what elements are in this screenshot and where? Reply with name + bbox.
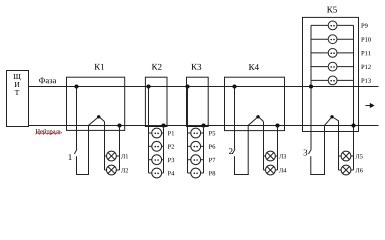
relay box К5 bbox=[303, 17, 359, 131]
distribution panel ЩИТ bbox=[7, 71, 29, 127]
socket Р8 bbox=[188, 172, 191, 174]
wire: bottom run of К1 cell bbox=[76, 174, 89, 176]
node: neutral tap of К5 bbox=[351, 123, 355, 127]
socket Р7 bbox=[188, 159, 191, 161]
contact blade of К4 bbox=[248, 117, 258, 126]
lamp Л2 bbox=[105, 169, 107, 171]
label Р12 bbox=[361, 65, 364, 69]
wire: switch 2 lower drop bbox=[234, 156, 236, 175]
relay box К1 bbox=[67, 77, 125, 130]
node: neutral tap of К1 bbox=[117, 123, 121, 127]
label Нейтраль bbox=[35, 129, 39, 133]
wire: socket right rail of К2 bbox=[163, 126, 165, 174]
wire: socket left rail of К2 bbox=[148, 87, 150, 174]
socket Р11 bbox=[311, 52, 328, 54]
label Р5 bbox=[209, 131, 212, 135]
label Л1 bbox=[121, 154, 125, 158]
label Р2 bbox=[168, 144, 171, 148]
lamp Л3 bbox=[264, 155, 266, 157]
wire: lamp left rail of К5 cell bbox=[338, 120, 340, 170]
lamp Л5 bbox=[339, 155, 342, 157]
socket Р10 bbox=[311, 38, 328, 40]
node: phase tap of К5 bbox=[309, 84, 313, 88]
wire: lamp left rail of К1 cell bbox=[104, 122, 106, 170]
wire: return riser of К1 cell bbox=[88, 126, 90, 175]
label К1 bbox=[95, 64, 101, 70]
relay box К4 bbox=[225, 77, 285, 130]
label Л2 bbox=[121, 168, 125, 172]
node: neutral tap of К2 bbox=[161, 123, 165, 127]
socket Р3 bbox=[149, 159, 152, 161]
node: neutral tap of К3 bbox=[201, 123, 205, 127]
arrow: feed continues to the right bbox=[366, 105, 371, 107]
lamp Л1 bbox=[105, 155, 107, 157]
label Р1 bbox=[168, 131, 171, 135]
socket Р9 bbox=[311, 24, 328, 26]
label Р4 bbox=[168, 171, 171, 175]
socket Р2 bbox=[149, 145, 152, 147]
wire: lamp right rail of К1 cell bbox=[119, 126, 121, 171]
wire: bottom run of К4 cell bbox=[234, 174, 249, 176]
wire: phase bus bbox=[29, 86, 379, 88]
label Фаза bbox=[39, 78, 45, 84]
contact blade of К5 bbox=[325, 117, 333, 126]
label К4 bbox=[249, 64, 255, 70]
socket Р12 bbox=[311, 66, 328, 68]
relay box К3 bbox=[187, 77, 209, 126]
node: phase tap of К1 bbox=[74, 84, 78, 88]
label К2 bbox=[152, 64, 158, 70]
label Р7 bbox=[209, 158, 212, 162]
node: neutral tap of К4 bbox=[275, 123, 279, 127]
socket Р6 bbox=[188, 145, 191, 147]
lamp Л6 bbox=[339, 169, 342, 171]
label Л4 bbox=[279, 168, 283, 172]
red spellcheck squiggle under Нейтраль bbox=[36, 133, 60, 134]
label Л3 bbox=[279, 154, 283, 158]
wire: bottom run of К5 cell bbox=[310, 174, 325, 176]
wire: socket left rail of К3 bbox=[187, 87, 189, 174]
wire: lamp left rail of К4 cell bbox=[263, 122, 265, 170]
wire: phase drop to switch 2 bbox=[234, 87, 236, 150]
label Р3 bbox=[168, 158, 171, 162]
label К5 bbox=[327, 7, 333, 13]
switch 1 (wall switch) bbox=[74, 149, 77, 154]
label Р11 bbox=[361, 51, 364, 55]
node: phase tap of К3 bbox=[185, 84, 189, 88]
socket Р4 bbox=[149, 172, 152, 174]
contact blade of К1 bbox=[89, 117, 99, 126]
switch 2 (wall switch) bbox=[232, 149, 235, 154]
wire: phase drop to switch 1 bbox=[76, 87, 78, 150]
wire: switch 1 lower drop bbox=[76, 156, 78, 175]
label Р6 bbox=[209, 144, 212, 148]
wire: socket right rail of К3 bbox=[203, 126, 205, 174]
label Р9 bbox=[361, 24, 364, 28]
socket Р13 bbox=[311, 79, 328, 81]
wire: К5 socket left rail / switch drop bbox=[310, 25, 312, 149]
wire: К5 socket right rail bbox=[353, 25, 355, 170]
relay box К2 bbox=[145, 77, 167, 126]
label Л6 bbox=[355, 168, 359, 172]
socket Р5 bbox=[188, 132, 191, 134]
wire: lamp right rail of К4 cell bbox=[277, 126, 279, 171]
label К3 bbox=[191, 64, 197, 70]
label Р10 bbox=[361, 37, 364, 41]
node: phase tap of К2 bbox=[146, 84, 150, 88]
lamp Л4 bbox=[264, 169, 266, 171]
socket Р1 bbox=[149, 132, 152, 134]
node: phase tap of К4 bbox=[232, 84, 236, 88]
wire: neutral bus bbox=[29, 125, 379, 127]
wire: return riser of К4 cell bbox=[247, 126, 249, 175]
label Л5 bbox=[355, 154, 359, 158]
wire: switch 3 lower drop bbox=[310, 156, 312, 175]
wire: return riser of К5 cell bbox=[324, 126, 326, 175]
switch 3 (wall switch) bbox=[309, 149, 312, 154]
label Р8 bbox=[209, 171, 212, 175]
label Р13 bbox=[361, 79, 364, 83]
